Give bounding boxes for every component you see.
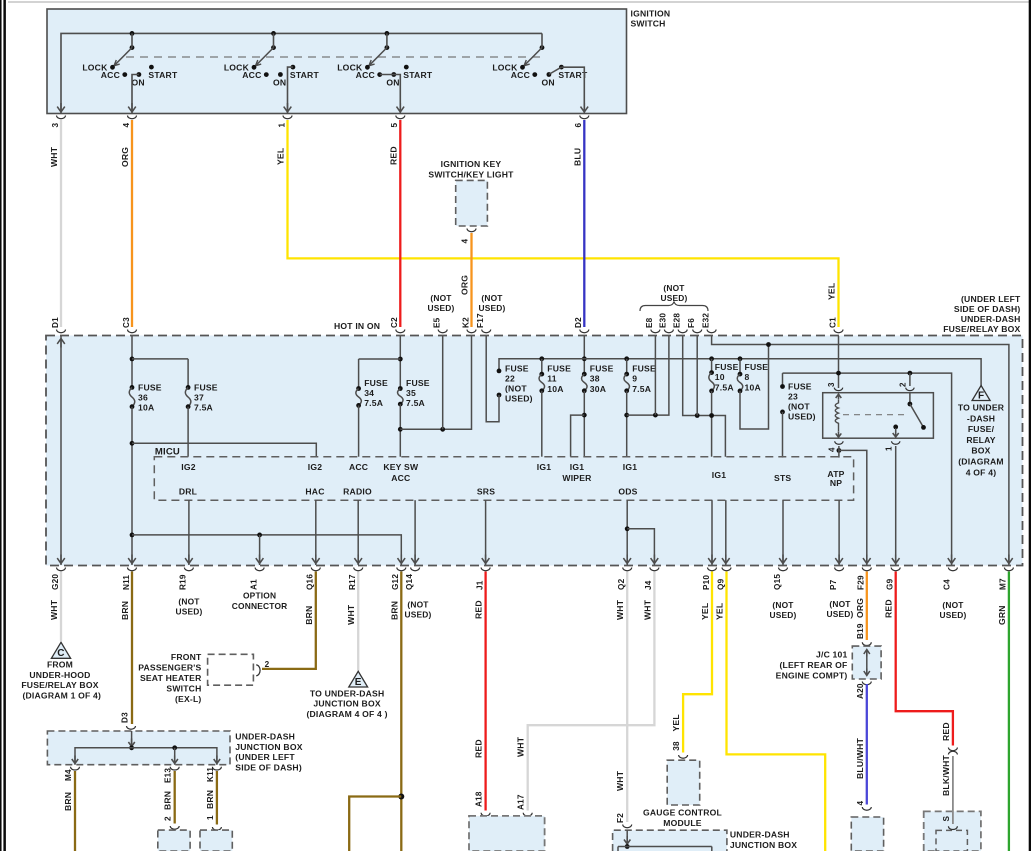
wire E32 to M7 line bbox=[712, 336, 1009, 565]
svg-text:(UNDER LEFT: (UNDER LEFT bbox=[235, 752, 295, 762]
svg-text:A1: A1 bbox=[249, 579, 258, 590]
svg-text:SEAT HEATER: SEAT HEATER bbox=[140, 673, 202, 683]
svg-text:IGNITION KEY: IGNITION KEY bbox=[441, 159, 502, 169]
svg-text:3: 3 bbox=[827, 382, 836, 387]
J/C 101 through arrow bbox=[866, 650, 868, 675]
svg-text:NP: NP bbox=[830, 478, 842, 488]
svg-text:4: 4 bbox=[828, 447, 837, 452]
wire C3 feed bbox=[131, 336, 133, 387]
fuse 34 bbox=[356, 386, 361, 391]
svg-text:BLU/WHT: BLU/WHT bbox=[855, 737, 865, 779]
svg-text:FUSE/RELAY BOX: FUSE/RELAY BOX bbox=[943, 324, 1020, 334]
svg-text:RED: RED bbox=[474, 600, 484, 619]
wire BRN N11 to D3 bbox=[131, 572, 133, 725]
wire WHT R17 to E triangle bbox=[357, 572, 359, 671]
svg-text:(UNDER LEFT: (UNDER LEFT bbox=[961, 294, 1021, 304]
relay pin 3 connector bbox=[834, 388, 842, 391]
wire D1 to G20 through box bbox=[60, 336, 62, 565]
connector pin A18 bbox=[481, 813, 490, 816]
wire ORG F29 to J/C 101 bbox=[866, 572, 868, 641]
svg-text:RED: RED bbox=[388, 146, 398, 165]
S inner box bbox=[936, 830, 967, 851]
svg-text:E13: E13 bbox=[164, 768, 173, 783]
feed segment fuse34 bbox=[359, 358, 401, 360]
wire fuse9 to MICU IG1 bbox=[626, 391, 628, 457]
wire pin4 to MICU ATP bbox=[838, 446, 840, 458]
svg-text:BLK/WHT: BLK/WHT bbox=[941, 754, 951, 796]
svg-text:Q14: Q14 bbox=[405, 574, 414, 590]
ignition feed bus wire bbox=[61, 33, 542, 113]
fuse 8 bbox=[738, 372, 743, 377]
node fuse38 split bbox=[582, 413, 587, 418]
node key light jog bbox=[398, 427, 403, 432]
svg-text:START: START bbox=[290, 70, 320, 80]
svg-text:IG2: IG2 bbox=[181, 462, 195, 472]
svg-text:23: 23 bbox=[788, 391, 798, 401]
svg-text:IG1: IG1 bbox=[712, 470, 726, 480]
drop to A1 bbox=[259, 535, 261, 565]
svg-text:WHT: WHT bbox=[49, 599, 59, 620]
svg-text:4: 4 bbox=[461, 239, 470, 244]
junction box inner bus bbox=[618, 846, 712, 848]
yellow distribution line bbox=[783, 373, 952, 565]
svg-text:38: 38 bbox=[672, 741, 681, 751]
ignition switch pole 1 bbox=[82, 31, 178, 87]
svg-text:GRN: GRN bbox=[997, 605, 1007, 625]
node F6 junction bbox=[695, 413, 700, 418]
svg-text:(NOT: (NOT bbox=[772, 600, 794, 610]
connector triangle F bbox=[972, 386, 990, 401]
relay switch common bbox=[909, 393, 911, 404]
svg-text:FUSE: FUSE bbox=[194, 382, 218, 392]
svg-text:BRN: BRN bbox=[304, 606, 314, 625]
wire ATP NP to P7 bbox=[838, 500, 840, 565]
svg-text:RED: RED bbox=[474, 739, 484, 758]
svg-text:SIDE OF DASH): SIDE OF DASH) bbox=[235, 762, 302, 772]
node bus to A1 bbox=[257, 533, 262, 538]
svg-text:Q16: Q16 bbox=[306, 574, 315, 590]
connector triangle E bbox=[349, 671, 368, 687]
svg-text:F6: F6 bbox=[687, 318, 696, 328]
svg-text:6: 6 bbox=[574, 123, 583, 128]
svg-text:ODS: ODS bbox=[618, 487, 637, 497]
svg-text:1: 1 bbox=[884, 446, 893, 451]
svg-text:WIPER: WIPER bbox=[562, 473, 592, 483]
node F2 bus bbox=[625, 844, 630, 849]
fuse box top edge connector pins bbox=[57, 330, 66, 333]
svg-text:OPTION: OPTION bbox=[243, 591, 276, 601]
pole 4 ON-START bridge bbox=[549, 67, 561, 74]
svg-text:FUSE: FUSE bbox=[590, 363, 614, 373]
wire HAC to Q16 bbox=[315, 500, 317, 565]
svg-text:10A: 10A bbox=[138, 402, 154, 412]
svg-text:M7: M7 bbox=[999, 578, 1008, 590]
node E8 junction bbox=[653, 413, 658, 418]
svg-text:C1: C1 bbox=[828, 317, 837, 328]
fuse 9 bbox=[624, 372, 629, 377]
svg-text:FUSE: FUSE bbox=[745, 362, 769, 372]
svg-text:BRN: BRN bbox=[163, 791, 173, 810]
wire C2 feed bbox=[399, 336, 401, 389]
svg-text:ORG: ORG bbox=[460, 275, 470, 295]
svg-text:ON: ON bbox=[542, 77, 555, 87]
svg-text:22: 22 bbox=[505, 373, 515, 383]
svg-text:7.5A: 7.5A bbox=[406, 398, 425, 408]
svg-text:ON: ON bbox=[386, 77, 399, 87]
svg-text:C: C bbox=[57, 648, 64, 659]
left frame line 1 bbox=[0, 0, 2, 851]
svg-text:C4: C4 bbox=[943, 579, 952, 590]
svg-text:BLU: BLU bbox=[572, 148, 582, 166]
node G12 branch bbox=[398, 794, 404, 800]
svg-text:(DIAGRAM 4 OF 4 ): (DIAGRAM 4 OF 4 ) bbox=[306, 709, 387, 719]
gauge control module box bbox=[667, 760, 700, 805]
svg-text:7.5A: 7.5A bbox=[364, 398, 383, 408]
svg-text:TO UNDER-DASH: TO UNDER-DASH bbox=[310, 688, 385, 698]
connector pin D3 bbox=[127, 726, 136, 729]
dashed mechanical link bbox=[126, 56, 540, 58]
svg-text:ACC: ACC bbox=[101, 70, 120, 80]
fuse 23 feed bbox=[782, 373, 784, 386]
svg-text:ON: ON bbox=[132, 77, 145, 87]
svg-text:D1: D1 bbox=[51, 317, 60, 328]
svg-text:FUSE: FUSE bbox=[788, 381, 812, 391]
pole 4 output wire (from START) bbox=[561, 67, 584, 113]
node E5 junction bbox=[440, 427, 445, 432]
svg-text:FUSE: FUSE bbox=[138, 382, 162, 392]
svg-text:STS: STS bbox=[774, 473, 791, 483]
fuse 10 bbox=[709, 370, 714, 375]
svg-text:RADIO: RADIO bbox=[343, 487, 372, 497]
svg-text:YEL: YEL bbox=[276, 148, 286, 165]
svg-text:G20: G20 bbox=[51, 574, 60, 590]
svg-text:USED): USED) bbox=[427, 303, 454, 313]
svg-text:ACC: ACC bbox=[391, 473, 410, 483]
svg-text:USED): USED) bbox=[769, 610, 796, 620]
svg-text:FROM: FROM bbox=[47, 660, 73, 670]
fuse38 branch to MICU bbox=[571, 415, 585, 457]
svg-text:FUSE: FUSE bbox=[364, 378, 388, 388]
node bus to E13 bbox=[172, 745, 177, 750]
ignition connector pin 5 bbox=[396, 116, 405, 119]
node fuse 11 tap bbox=[539, 356, 544, 361]
fuse 8 drop bbox=[739, 359, 741, 374]
S outer box bbox=[924, 811, 981, 851]
ignition key light box bbox=[456, 180, 488, 226]
svg-text:FUSE: FUSE bbox=[715, 362, 739, 372]
svg-text:START: START bbox=[403, 70, 433, 80]
relay coil bbox=[836, 394, 842, 399]
svg-text:10A: 10A bbox=[745, 382, 761, 392]
svg-text:FUSE: FUSE bbox=[505, 363, 529, 373]
segment E8/E30 bbox=[627, 336, 669, 415]
drop to E13 bbox=[174, 748, 176, 765]
right frame line bbox=[1029, 0, 1031, 851]
svg-text:YEL: YEL bbox=[827, 283, 837, 300]
wire ODS to Q2 bbox=[626, 500, 628, 565]
wire BRN Q16 to seat heater bbox=[262, 572, 316, 669]
svg-text:F2: F2 bbox=[616, 813, 625, 823]
wire YEL P10 to gauge module bbox=[683, 572, 712, 753]
svg-text:(NOT: (NOT bbox=[505, 383, 527, 393]
bottom junction box bbox=[613, 830, 727, 851]
svg-text:USED): USED) bbox=[404, 610, 431, 620]
wire BRN G12 bbox=[400, 572, 402, 851]
svg-text:36: 36 bbox=[138, 392, 148, 402]
svg-text:HOT IN ON: HOT IN ON bbox=[334, 321, 380, 331]
svg-text:FUSE: FUSE bbox=[632, 363, 656, 373]
fuse 8 riser to M7 line bbox=[740, 345, 769, 430]
fuse 9 drop bbox=[626, 359, 628, 374]
svg-text:USED): USED) bbox=[505, 393, 533, 403]
connector pin S bbox=[948, 826, 957, 829]
svg-text:FUSE/: FUSE/ bbox=[968, 424, 995, 434]
connector pin 2 E13 bbox=[170, 826, 179, 829]
seat heater pin 2 bbox=[256, 665, 260, 676]
svg-text:34: 34 bbox=[364, 388, 374, 398]
pole 1 output wire (from ON) bbox=[132, 75, 139, 114]
svg-text:A20: A20 bbox=[856, 683, 865, 699]
svg-text:10A: 10A bbox=[547, 384, 563, 394]
svg-text:E5: E5 bbox=[433, 317, 442, 328]
svg-text:10: 10 bbox=[715, 372, 725, 382]
svg-text:UNDER-HOOD: UNDER-HOOD bbox=[29, 670, 90, 680]
svg-text:(NOT: (NOT bbox=[430, 293, 452, 303]
svg-text:N11: N11 bbox=[122, 575, 131, 590]
wire YEL pin1 to C1 bbox=[288, 120, 839, 327]
svg-text:7.5A: 7.5A bbox=[194, 402, 213, 412]
svg-text:1: 1 bbox=[277, 123, 286, 128]
node ODS split bbox=[625, 526, 630, 531]
pole 3 output wire (ACC-ON bridge) bbox=[380, 75, 401, 114]
fuse box bottom edge connector pins bbox=[57, 568, 66, 571]
branch ODS to J4 bbox=[627, 529, 654, 565]
svg-text:ON: ON bbox=[273, 77, 286, 87]
svg-text:WHT: WHT bbox=[642, 599, 652, 620]
svg-text:USED): USED) bbox=[939, 610, 966, 620]
svg-text:CONNECTOR: CONNECTOR bbox=[232, 601, 288, 611]
svg-text:MODULE: MODULE bbox=[663, 818, 702, 828]
svg-text:2: 2 bbox=[898, 382, 907, 387]
relay contact pin1 bbox=[893, 425, 898, 430]
svg-text:UNDER-DASH: UNDER-DASH bbox=[961, 314, 1021, 324]
svg-text:(NOT: (NOT bbox=[788, 401, 810, 411]
brace over E8-E32 pins bbox=[640, 302, 708, 312]
svg-text:C2: C2 bbox=[390, 317, 399, 328]
svg-text:37: 37 bbox=[194, 392, 204, 402]
wire RED pin5 to C2 bbox=[399, 120, 401, 327]
K11 destination box bbox=[200, 830, 232, 851]
ignition connector pin 3 bbox=[57, 116, 66, 119]
fuse 36 bbox=[130, 385, 135, 390]
wire pin4 to F29 bbox=[839, 450, 867, 565]
relay pin 2 connector bbox=[906, 388, 914, 391]
wire E5 bbox=[442, 336, 444, 429]
svg-text:(NOT: (NOT bbox=[942, 600, 964, 610]
svg-text:Q15: Q15 bbox=[773, 574, 782, 590]
svg-text:BRN: BRN bbox=[120, 601, 130, 620]
wire fuse35 output bbox=[399, 404, 401, 457]
wire RED J1 to A18 bbox=[484, 572, 486, 811]
node C1 junction bbox=[836, 371, 841, 376]
svg-text:4: 4 bbox=[122, 123, 131, 128]
wire fuse10 to MICU IG1 bbox=[711, 391, 713, 457]
connector pin F2 bbox=[623, 825, 632, 828]
svg-text:E28: E28 bbox=[673, 313, 682, 328]
svg-text:K2: K2 bbox=[461, 317, 470, 328]
svg-text:R17: R17 bbox=[348, 574, 357, 590]
main fuse bus bbox=[499, 359, 981, 386]
connector pin A17 bbox=[523, 813, 532, 816]
fuse 37 bbox=[186, 385, 191, 390]
svg-text:YEL: YEL bbox=[700, 603, 710, 620]
relay pin 2 wire bbox=[909, 373, 911, 386]
svg-text:J1: J1 bbox=[475, 580, 484, 590]
svg-text:S: S bbox=[942, 816, 951, 822]
connector pin 1 K11 bbox=[212, 827, 221, 830]
wire BLU pin6 to D2 bbox=[583, 120, 585, 327]
svg-text:(NOT: (NOT bbox=[481, 293, 503, 303]
svg-text:5: 5 bbox=[390, 123, 399, 128]
node C3 bus bbox=[130, 357, 135, 362]
junction box bus bbox=[75, 748, 217, 765]
node relay pin4 bbox=[837, 448, 842, 453]
svg-text:ACC: ACC bbox=[349, 462, 368, 472]
svg-text:ACC: ACC bbox=[356, 70, 375, 80]
wire SRS to J1 bbox=[485, 500, 487, 565]
svg-text:4 OF 4): 4 OF 4) bbox=[966, 467, 997, 477]
node brn bus left bbox=[130, 533, 135, 538]
node fuse36 branch bbox=[130, 441, 135, 446]
wire WHT Q2 to F2 bbox=[626, 572, 628, 823]
ignition key light pin 4 bbox=[467, 229, 476, 232]
svg-text:4: 4 bbox=[856, 801, 865, 806]
brown bus inside box bbox=[132, 535, 401, 565]
svg-text:E32: E32 bbox=[701, 313, 710, 328]
ignition connector pin 6 bbox=[580, 116, 589, 119]
inline connector RED/BLKWHT bbox=[948, 748, 957, 751]
svg-text:D3: D3 bbox=[121, 712, 130, 723]
svg-text:RED: RED bbox=[941, 722, 951, 741]
svg-text:8: 8 bbox=[745, 372, 750, 382]
MICU box bbox=[154, 457, 853, 501]
svg-text:2: 2 bbox=[265, 660, 270, 669]
svg-text:HAC: HAC bbox=[305, 487, 324, 497]
junction box entry arrow bbox=[131, 731, 133, 748]
svg-text:IGNITION: IGNITION bbox=[631, 8, 671, 18]
wire DRL to R19 bbox=[188, 500, 190, 565]
svg-text:IG1: IG1 bbox=[570, 462, 584, 472]
wire RADIO to R17 bbox=[357, 500, 359, 565]
svg-text:PASSENGER'S: PASSENGER'S bbox=[138, 662, 201, 672]
ignition switch box bbox=[47, 9, 627, 114]
svg-text:F29: F29 bbox=[857, 575, 866, 590]
svg-text:(DIAGRAM 1 OF 4): (DIAGRAM 1 OF 4) bbox=[22, 690, 101, 700]
connector pin 38 bbox=[679, 755, 688, 758]
svg-text:FUSE: FUSE bbox=[547, 363, 571, 373]
svg-text:SWITCH: SWITCH bbox=[631, 19, 666, 29]
svg-text:WHT: WHT bbox=[516, 736, 526, 757]
svg-text:G12: G12 bbox=[391, 574, 400, 590]
A18 A17 destination box bbox=[469, 816, 545, 851]
relay pin 1 connector bbox=[892, 441, 900, 444]
svg-text:A17: A17 bbox=[517, 794, 526, 810]
node fuse10 segment bbox=[709, 413, 714, 418]
ignition connector pin 1 bbox=[283, 116, 292, 119]
wire fuse38 output bbox=[583, 391, 585, 457]
branch to MICU IG2 bbox=[132, 443, 316, 456]
svg-text:ACC: ACC bbox=[242, 70, 261, 80]
svg-text:3: 3 bbox=[51, 123, 60, 128]
fuse 10 drop bbox=[711, 359, 713, 373]
svg-text:USED): USED) bbox=[660, 293, 687, 303]
wire IG1 to Q9 bbox=[725, 500, 727, 565]
svg-text:START: START bbox=[148, 70, 178, 80]
svg-text:SWITCH: SWITCH bbox=[166, 683, 201, 693]
wire fuse11 to MICU IG1 bbox=[541, 391, 543, 457]
svg-text:IG2: IG2 bbox=[308, 462, 322, 472]
svg-text:(NOT: (NOT bbox=[829, 599, 851, 609]
wire YEL Q9 bbox=[727, 572, 826, 851]
E13 destination box bbox=[158, 830, 190, 851]
svg-text:30A: 30A bbox=[590, 384, 606, 394]
node fuse 10 tap bbox=[709, 356, 714, 361]
svg-text:JUNCTION BOX: JUNCTION BOX bbox=[313, 699, 380, 709]
svg-text:E: E bbox=[355, 677, 362, 688]
svg-text:BRN: BRN bbox=[205, 790, 215, 809]
wire fuse36 output bbox=[131, 407, 133, 565]
node fuse8 riser junction bbox=[766, 342, 771, 347]
fuse 11 drop bbox=[541, 359, 543, 374]
svg-text:JUNCTION BOX: JUNCTION BOX bbox=[235, 742, 302, 752]
svg-text:FRONT: FRONT bbox=[171, 652, 202, 662]
svg-text:YEL: YEL bbox=[671, 714, 681, 731]
relay mechanical link bbox=[843, 414, 905, 416]
svg-text:ENGINE COMPT): ENGINE COMPT) bbox=[776, 671, 848, 681]
svg-text:USED): USED) bbox=[788, 411, 816, 421]
svg-text:38: 38 bbox=[590, 373, 600, 383]
wire WHT J4 to A17 bbox=[528, 572, 655, 811]
svg-text:F17: F17 bbox=[476, 313, 485, 328]
svg-text:SRS: SRS bbox=[477, 487, 495, 497]
connector pin B19 bbox=[862, 642, 871, 645]
svg-text:A18: A18 bbox=[475, 791, 484, 807]
svg-text:SIDE OF DASH): SIDE OF DASH) bbox=[954, 304, 1021, 314]
svg-text:-DASH: -DASH bbox=[967, 413, 995, 423]
wire STS to Q15 bbox=[782, 500, 784, 565]
svg-text:E30: E30 bbox=[659, 313, 668, 328]
svg-text:IG1: IG1 bbox=[623, 462, 637, 472]
svg-text:J4: J4 bbox=[644, 580, 653, 590]
svg-text:B19: B19 bbox=[856, 623, 865, 639]
svg-text:WHT: WHT bbox=[615, 770, 625, 791]
connector pin 4 bluwht bbox=[862, 807, 871, 810]
svg-text:35: 35 bbox=[406, 388, 416, 398]
wire BRN K11 bbox=[216, 771, 218, 825]
relay blade bbox=[910, 404, 924, 427]
svg-text:C3: C3 bbox=[122, 317, 131, 328]
pole 2 output wire (from START) bbox=[288, 67, 293, 113]
svg-text:(LEFT REAR OF: (LEFT REAR OF bbox=[779, 660, 847, 670]
jog to K2 bbox=[400, 336, 471, 429]
svg-text:7.5A: 7.5A bbox=[632, 384, 651, 394]
fuse 34 drop bbox=[358, 359, 360, 389]
svg-text:(NOT: (NOT bbox=[178, 597, 200, 607]
svg-text:P7: P7 bbox=[829, 579, 838, 590]
svg-text:USED): USED) bbox=[478, 303, 505, 313]
svg-text:FUSE: FUSE bbox=[406, 378, 430, 388]
ignition switch pole 2 bbox=[224, 31, 320, 87]
